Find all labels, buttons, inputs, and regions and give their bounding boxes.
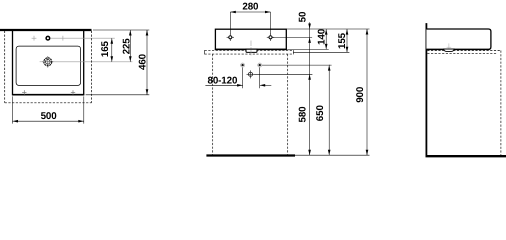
svg-text:225: 225 (122, 38, 133, 55)
faucet hole (plan) (46, 36, 50, 40)
hidden furniture right side (front, dashed) (287, 54, 289, 154)
countertop right end cap (292, 50, 294, 54)
centerline through drain to dimension 225 (54, 61, 133, 63)
floor extension line to dimension column (295, 154, 370, 156)
svg-text:900: 900 (355, 86, 366, 103)
dimension 155 line and arrows (346, 29, 349, 52)
dimension 280 line and arrows (230, 11, 270, 14)
extension line from basin top to dim column (287, 28, 370, 30)
water supply point left (front) (241, 63, 245, 67)
centerline stub left of drain (40, 61, 42, 63)
leader from supply to dim 650 (262, 64, 332, 66)
dimension line 50/580 shared vertical (309, 22, 311, 155)
extension line from fixing holes to dim 50 (273, 36, 313, 38)
leader from drain to dim 580 (254, 73, 312, 75)
dimension 140 line and arrows (325, 29, 328, 49)
dimension 650 line and arrows (328, 65, 331, 155)
drain centerline cross (side) (447, 43, 452, 48)
fixing mark cross right (plan bottom edge) (71, 90, 75, 94)
washbasin bottom edge emphasized (front) (215, 48, 287, 50)
dim 580 arrows (308, 74, 311, 80)
top extension line for dims 225/460 (93, 29, 149, 31)
hidden countertop bottom line (front, dashed) (205, 53, 294, 55)
hidden countertop top line (front, dashed) (205, 49, 294, 51)
centerline cross left of faucet (32, 36, 37, 41)
dim 50 arrows (outside) (308, 24, 311, 30)
dimension 500 line and arrows (13, 120, 84, 123)
svg-text:155: 155 (337, 32, 348, 49)
fixing mark cross left (plan bottom edge) (22, 90, 26, 94)
bottom extension line for dim 460 (86, 94, 150, 96)
hidden countertop outline left (plan, dashed) (4, 31, 6, 103)
svg-text:500: 500 (41, 111, 58, 122)
floor line (side, thick) (426, 155, 506, 157)
dimension 900 line and arrows (366, 29, 369, 155)
dimension 165 line and arrows (111, 38, 114, 62)
washbasin outer rect (plan) (13, 30, 84, 95)
extension line from drain tab bottom to dim 155 (293, 51, 349, 53)
supply extension line right (259, 68, 261, 89)
fixing hole right (front) (267, 34, 274, 41)
washbasin body (front) (215, 29, 286, 49)
dimension 80-120 leader and arrows (205, 84, 271, 87)
wall line (side, thick vertical) (425, 23, 427, 157)
extension line from basin bottom to dim 140 (287, 48, 329, 50)
svg-text:140: 140 (317, 28, 328, 45)
countertop left end cap (204, 50, 206, 54)
supply extension line left (242, 68, 244, 89)
hidden furniture left side (front, dashed) (212, 54, 214, 154)
svg-text:165: 165 (100, 40, 111, 57)
washbasin profile (side) (426, 29, 491, 49)
water supply point right (front) (258, 63, 262, 67)
washbasin bottom edge emphasized (side) (426, 48, 489, 50)
hidden countertop bottom line (side, dashed) (427, 52, 497, 54)
extension lines for dim 280 (230, 12, 270, 34)
drain outlet symbol (plan) (42, 56, 54, 68)
wall line (plan, thick top) (0, 29, 92, 31)
dimension 460 line and arrows (146, 30, 149, 95)
extension lines for dim 500 (13, 96, 84, 123)
svg-text:580: 580 (298, 106, 309, 123)
inner bowl rounded rect (plan) (16, 46, 81, 85)
fixing hole left (front) (227, 34, 234, 41)
hidden furniture front side (side, dashed vertical) (500, 51, 502, 156)
hidden countertop top line (side, dashed) (427, 50, 501, 52)
drain connection symbol (front) (247, 70, 255, 78)
hidden countertop outline right (plan, dashed) (91, 31, 93, 103)
svg-text:80-120: 80-120 (208, 76, 238, 87)
centerline through faucet to dimension 165 (50, 37, 115, 39)
svg-text:460: 460 (138, 53, 149, 70)
svg-text:50: 50 (298, 11, 309, 22)
floor line (front, thick) (206, 154, 295, 156)
centerline cross tick right of faucet (62, 36, 64, 41)
dimension 225 line and arrows (129, 30, 132, 62)
vertical centerline through drain (front) (250, 41, 252, 57)
hidden countertop outline bottom (plan, dashed) (5, 102, 92, 104)
drain tab below basin (front) (246, 49, 257, 52)
drain tab below basin (side) (444, 49, 455, 51)
svg-text:650: 650 (315, 105, 326, 122)
washbasin front edge emphasized (plan bottom) (12, 94, 84, 96)
svg-text:280: 280 (242, 1, 259, 12)
